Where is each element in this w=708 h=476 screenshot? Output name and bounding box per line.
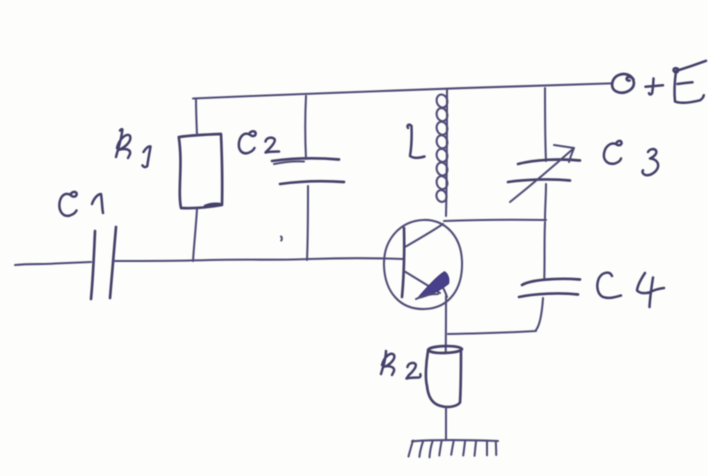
transistor Q1: [384, 220, 462, 309]
capacitor C4: [543, 222, 546, 278]
capacitor C2: [272, 158, 339, 161]
resistor R1: [179, 134, 222, 208]
label +E: [646, 79, 664, 95]
ground: [412, 440, 498, 441]
label C1: [59, 192, 76, 216]
label C3: [604, 141, 622, 164]
label R1: [116, 129, 130, 158]
wire C2 bottom lead: [307, 186, 308, 260]
node +E terminal: [612, 74, 634, 93]
capacitor C1: [91, 231, 95, 299]
label L: [408, 125, 425, 158]
wire top supply rail: [193, 83, 611, 98]
wire C4 bottom to emitter node: [448, 331, 536, 334]
resistor R2: [426, 346, 462, 407]
wire R2 bottom lead: [445, 407, 447, 439]
label R2: [381, 351, 394, 375]
wire R1 bottom lead: [193, 209, 197, 261]
label C4: [597, 273, 621, 298]
label C2: [239, 131, 256, 153]
wire input left: [15, 262, 91, 265]
wire collector to C3/C4 node: [444, 220, 546, 221]
inductor L: [446, 89, 447, 216]
wire C2 top lead: [304, 96, 307, 159]
wire base (mid): [114, 258, 403, 261]
wire R1 top lead: [196, 99, 197, 135]
wire emitter down: [445, 296, 447, 352]
capacitor C3: [545, 88, 546, 161]
node dot: [280, 237, 283, 241]
